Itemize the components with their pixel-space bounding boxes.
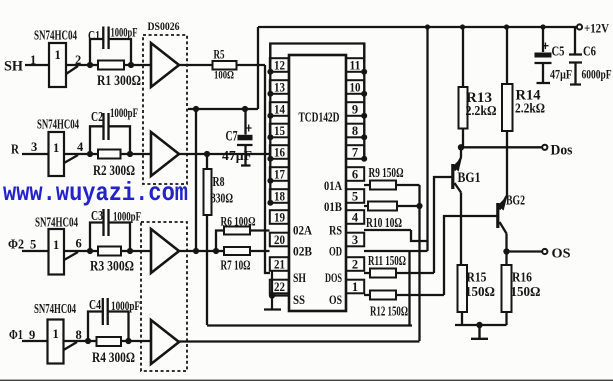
svg-text:C2: C2 [91,110,103,125]
svg-text:5: 5 [352,190,358,204]
svg-text:C6: C6 [583,44,596,59]
svg-text:7: 7 [352,146,358,160]
svg-text:10: 10 [350,81,361,95]
svg-text:+12V: +12V [584,22,609,36]
svg-text:1: 1 [53,141,59,155]
svg-text:100Ω: 100Ω [214,68,234,82]
svg-text:330Ω: 330Ω [211,192,233,207]
svg-text:www.wuyazi.com: www.wuyazi.com [3,178,188,208]
svg-text:1: 1 [55,48,61,62]
svg-text:R12 150Ω: R12 150Ω [370,304,408,319]
svg-text:6: 6 [352,168,358,182]
svg-text:C1: C1 [88,29,100,44]
svg-text:C5: C5 [552,44,565,59]
svg-text:14: 14 [274,103,286,117]
svg-text:OD: OD [329,244,342,259]
svg-text:8: 8 [352,124,358,138]
svg-text:SN74HC04: SN74HC04 [34,29,77,44]
svg-text:Φ1: Φ1 [9,328,23,343]
svg-text:13: 13 [274,81,285,95]
svg-text:01A: 01A [324,178,342,193]
svg-text:R4 300Ω: R4 300Ω [92,350,135,366]
svg-text:15: 15 [274,124,285,138]
svg-text:01B: 01B [324,199,342,214]
svg-text:R1 300Ω: R1 300Ω [97,73,141,89]
svg-text:8: 8 [76,328,82,342]
svg-text:R2 300Ω: R2 300Ω [93,163,135,179]
svg-text:R8: R8 [213,175,225,190]
svg-text:3: 3 [352,233,358,247]
svg-text:12: 12 [274,59,285,73]
svg-text:BG2: BG2 [506,194,525,209]
svg-text:1000pF: 1000pF [111,25,138,40]
svg-text:C4: C4 [89,298,101,313]
svg-text:DOS: DOS [325,270,342,285]
svg-text:5: 5 [30,238,36,252]
svg-text:SS: SS [293,292,305,307]
svg-text:SH: SH [293,270,306,285]
svg-text:SN74HC04: SN74HC04 [34,302,76,317]
svg-text:4: 4 [77,140,84,154]
svg-text:11: 11 [350,59,361,73]
svg-text:2: 2 [75,53,81,67]
svg-text:BG1: BG1 [458,170,481,186]
svg-text:2.2kΩ: 2.2kΩ [515,102,545,117]
svg-text:150Ω: 150Ω [511,284,541,299]
svg-text:R5: R5 [214,47,225,62]
svg-text:R10 10Ω: R10 10Ω [366,215,402,230]
svg-text:1: 1 [30,53,36,67]
svg-text:47μF: 47μF [550,67,572,82]
svg-text:OS: OS [329,292,342,307]
svg-text:21: 21 [274,258,285,272]
svg-text:1000pF: 1000pF [113,209,141,224]
svg-text:SN74HC04: SN74HC04 [35,216,78,231]
svg-text:47μF: 47μF [222,148,252,163]
svg-text:9: 9 [29,328,35,342]
svg-text:1000pF: 1000pF [111,298,140,313]
svg-text:R3 300Ω: R3 300Ω [90,259,134,275]
svg-text:SH: SH [4,59,24,75]
svg-text:18: 18 [274,190,285,204]
svg-text:22: 22 [274,280,285,294]
svg-text:1: 1 [53,238,59,252]
svg-text:6000pF: 6000pF [582,67,612,82]
svg-text:R7 10Ω: R7 10Ω [221,258,251,273]
svg-text:OS: OS [552,247,571,262]
svg-text:02B: 02B [293,244,312,259]
svg-text:2: 2 [352,258,358,272]
svg-text:SN74HC04: SN74HC04 [37,118,79,133]
svg-text:1: 1 [352,280,358,294]
svg-text:150Ω: 150Ω [465,284,495,299]
svg-text:9: 9 [352,103,358,117]
svg-text:Dos: Dos [551,143,573,159]
svg-text:20: 20 [274,233,285,247]
svg-text:19: 19 [274,211,285,225]
svg-text:C3: C3 [91,209,103,224]
svg-text:R9 150Ω: R9 150Ω [369,165,404,180]
svg-text:R: R [11,143,20,158]
svg-text:DS0026: DS0026 [148,19,180,33]
svg-text:C7: C7 [226,129,238,145]
svg-text:6: 6 [76,237,82,251]
svg-text:1000pF: 1000pF [110,105,138,120]
svg-text:R11 150Ω: R11 150Ω [368,253,406,268]
svg-text:2.2kΩ: 2.2kΩ [466,104,497,119]
svg-text:17: 17 [274,168,285,182]
svg-text:16: 16 [274,146,285,160]
svg-text:R6 100Ω: R6 100Ω [221,214,256,229]
svg-text:02A: 02A [293,223,313,238]
svg-text:Φ2: Φ2 [8,238,24,253]
svg-text:TCD142D: TCD142D [299,110,340,125]
svg-text:RS: RS [329,223,342,238]
svg-text:3: 3 [31,140,37,154]
svg-text:1: 1 [53,327,59,341]
svg-text:4: 4 [352,211,359,225]
